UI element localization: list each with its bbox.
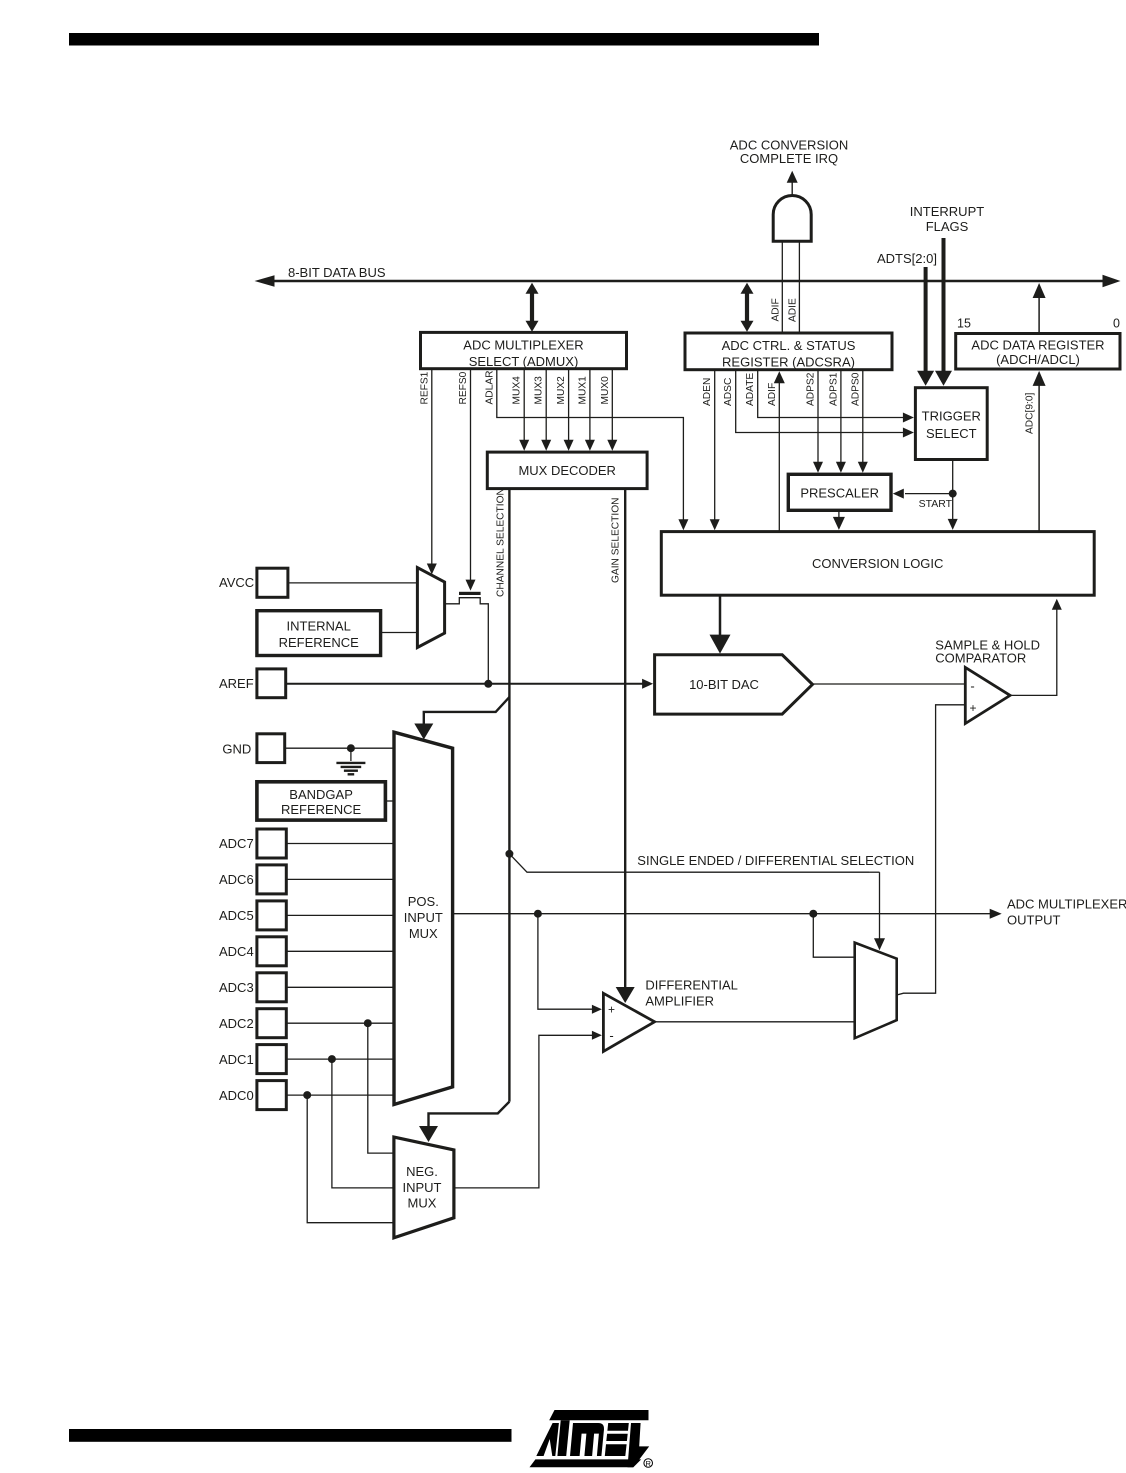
svg-text:DIFFERENTIAL: DIFFERENTIAL <box>645 978 737 993</box>
svg-text:-: - <box>609 1028 613 1043</box>
svg-text:CONVERSION LOGIC: CONVERSION LOGIC <box>812 556 943 571</box>
svg-text:ADC MULTIPLEXER: ADC MULTIPLEXER <box>463 338 583 353</box>
svg-text:-: - <box>970 679 974 694</box>
svg-text:REGISTER (ADCSRA): REGISTER (ADCSRA) <box>722 355 855 370</box>
svg-text:(ADCH/ADCL): (ADCH/ADCL) <box>996 352 1080 367</box>
svg-text:+: + <box>969 701 976 715</box>
svg-text:AMPLIFIER: AMPLIFIER <box>645 994 714 1009</box>
svg-text:ADIF: ADIF <box>771 298 782 321</box>
svg-text:ADC DATA REGISTER: ADC DATA REGISTER <box>971 338 1104 353</box>
svg-text:10-BIT DAC: 10-BIT DAC <box>689 677 759 692</box>
svg-text:GAIN SELECTION: GAIN SELECTION <box>611 498 622 583</box>
svg-text:ADC1: ADC1 <box>219 1052 254 1067</box>
svg-text:ADC4: ADC4 <box>219 944 254 959</box>
svg-text:+: + <box>608 1003 615 1017</box>
svg-text:ADC6: ADC6 <box>219 872 254 887</box>
svg-text:SINGLE ENDED / DIFFERENTIAL SE: SINGLE ENDED / DIFFERENTIAL SELECTION <box>637 853 914 868</box>
svg-text:ADLAR: ADLAR <box>484 371 495 405</box>
svg-text:ADATE: ADATE <box>745 373 756 406</box>
svg-text:MUX2: MUX2 <box>556 376 567 405</box>
svg-text:BANDGAP: BANDGAP <box>289 787 353 802</box>
svg-text:REFS1: REFS1 <box>419 371 430 404</box>
svg-text:AVCC: AVCC <box>219 575 254 590</box>
svg-text:INPUT: INPUT <box>404 910 443 925</box>
svg-text:AREF: AREF <box>219 676 254 691</box>
svg-text:REFS0: REFS0 <box>458 371 469 404</box>
svg-text:15: 15 <box>957 317 971 331</box>
svg-text:R: R <box>645 1459 651 1468</box>
svg-text:REFERENCE: REFERENCE <box>279 635 360 650</box>
svg-text:ADC0: ADC0 <box>219 1088 254 1103</box>
svg-text:MUX1: MUX1 <box>577 376 588 405</box>
svg-text:ADC MULTIPLEXER: ADC MULTIPLEXER <box>1007 897 1126 912</box>
svg-text:0: 0 <box>1113 317 1120 331</box>
svg-text:ADC CTRL. & STATUS: ADC CTRL. & STATUS <box>722 338 856 353</box>
svg-text:COMPLETE IRQ: COMPLETE IRQ <box>740 151 838 166</box>
svg-text:ADEN: ADEN <box>702 378 713 406</box>
svg-text:ADPS2: ADPS2 <box>806 372 817 406</box>
svg-text:OUTPUT: OUTPUT <box>1007 913 1061 928</box>
svg-text:ADC2: ADC2 <box>219 1016 254 1031</box>
svg-text:ADC5: ADC5 <box>219 908 254 923</box>
svg-text:NEG.: NEG. <box>406 1164 438 1179</box>
svg-text:MUX0: MUX0 <box>600 376 611 405</box>
svg-text:ADC7: ADC7 <box>219 836 254 851</box>
svg-text:ADC3: ADC3 <box>219 980 254 995</box>
svg-text:START: START <box>919 498 953 510</box>
svg-text:MUX4: MUX4 <box>512 376 523 405</box>
svg-text:ADSC: ADSC <box>723 378 734 406</box>
svg-text:POS.: POS. <box>408 894 439 909</box>
svg-text:MUX: MUX <box>408 1196 437 1211</box>
svg-text:ADIF: ADIF <box>767 383 778 406</box>
svg-text:SELECT: SELECT <box>926 426 977 441</box>
svg-text:ADPS0: ADPS0 <box>850 372 861 406</box>
svg-text:ADIE: ADIE <box>788 298 799 322</box>
svg-text:REFERENCE: REFERENCE <box>281 802 362 817</box>
svg-text:FLAGS: FLAGS <box>926 219 969 234</box>
svg-text:ADPS1: ADPS1 <box>828 372 839 406</box>
svg-text:TRIGGER: TRIGGER <box>922 409 981 424</box>
svg-text:GND: GND <box>222 742 251 757</box>
svg-text:8-BIT DATA BUS: 8-BIT DATA BUS <box>288 265 386 280</box>
svg-text:CHANNEL SELECTION: CHANNEL SELECTION <box>495 488 506 597</box>
svg-text:ADC[9:0]: ADC[9:0] <box>1025 392 1036 434</box>
svg-text:ADTS[2:0]: ADTS[2:0] <box>877 251 937 266</box>
svg-text:INPUT: INPUT <box>403 1180 442 1195</box>
svg-text:INTERNAL: INTERNAL <box>287 619 351 634</box>
svg-text:MUX: MUX <box>409 926 438 941</box>
svg-text:INTERRUPT: INTERRUPT <box>910 204 984 219</box>
svg-text:MUX3: MUX3 <box>534 376 545 405</box>
svg-text:MUX DECODER: MUX DECODER <box>518 463 616 478</box>
svg-text:COMPARATOR: COMPARATOR <box>935 651 1026 666</box>
svg-text:SELECT (ADMUX): SELECT (ADMUX) <box>469 354 579 369</box>
svg-text:PRESCALER: PRESCALER <box>800 486 879 501</box>
